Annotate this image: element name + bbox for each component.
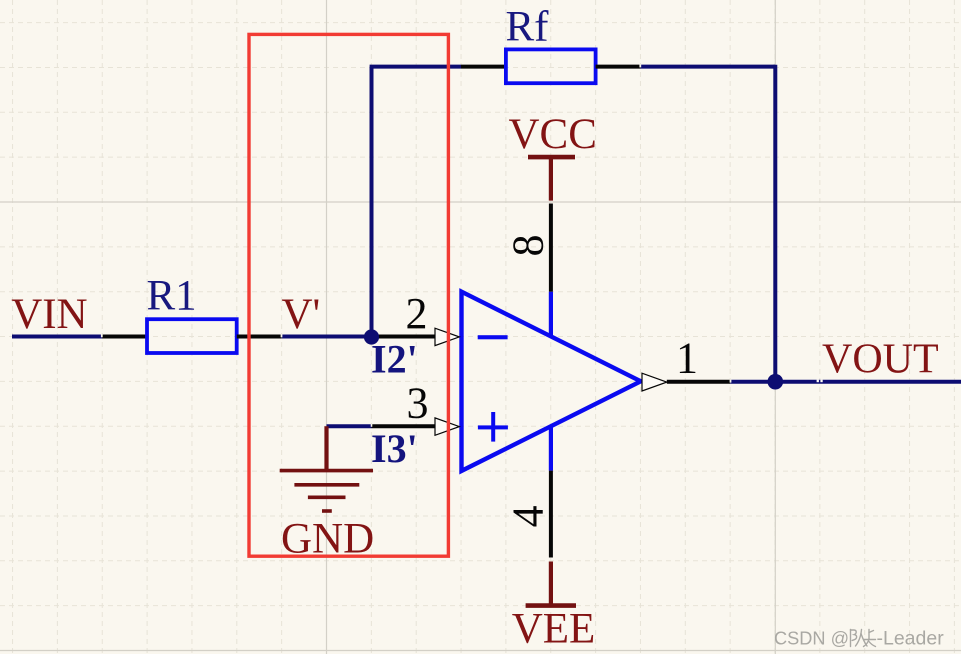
wire VOUT [775,380,961,384]
junction node V' dot [364,329,379,344]
resistor R1 pin right [237,335,282,339]
svg-text:4: 4 [504,505,553,527]
svg-text:VEE: VEE [512,606,596,653]
wire R1 to node V' [282,335,372,339]
op-amp minus symbol [478,335,508,339]
wire feedback vertical right [773,65,777,382]
red selection rectangle [249,34,448,556]
ground [324,426,328,470]
resistor R1 pin left [102,335,147,339]
pin 2 arrowhead [435,328,459,345]
svg-text:VOUT: VOUT [822,337,939,383]
op-amp plus symbol [478,425,508,429]
svg-text:V': V' [282,291,321,338]
svg-text:GND: GND [281,516,374,563]
svg-text:2: 2 [406,289,428,338]
wire feedback top right [641,65,776,69]
wire feedback vertical left [370,67,374,337]
svg-text:8: 8 [504,235,553,257]
svg-text:VIN: VIN [11,291,87,338]
wire VIN segment [12,335,102,339]
wire GND to pin3 [327,424,372,428]
svg-text:VCC: VCC [509,111,597,158]
svg-text:CSDN @: CSDN @ [774,629,849,649]
VEE power symbol [549,562,553,606]
VCC power symbol [528,155,575,160]
resistor R1 [147,319,237,353]
pin 4 wire black [549,471,553,558]
output pin arrowhead [642,373,667,391]
svg-text:-Leader: -Leader [877,628,945,650]
op-amp U1 triangle [462,292,641,471]
svg-text:R1: R1 [147,273,197,320]
pin 8 wire black [549,204,553,292]
svg-text:3: 3 [407,378,429,427]
resistor Rf pin left [461,65,506,69]
pin 4 blue segment [549,426,553,471]
pin 3 wire [372,424,436,428]
wire feedback top left [370,65,461,69]
svg-text:I3': I3' [371,426,418,471]
resistor Rf [506,49,596,83]
svg-text:I2': I2' [371,336,418,381]
resistor Rf pin right [596,65,641,69]
junction node VOUT dot [768,374,784,390]
svg-text:Rf: Rf [506,4,550,51]
output pin wire [667,380,731,384]
pin 3 arrowhead [435,418,459,435]
pin 2 wire [372,335,436,339]
pin 8 blue segment [549,292,553,336]
wire output to node [730,380,775,384]
wire hotspot notches [817,380,819,383]
svg-text:1: 1 [676,334,698,383]
